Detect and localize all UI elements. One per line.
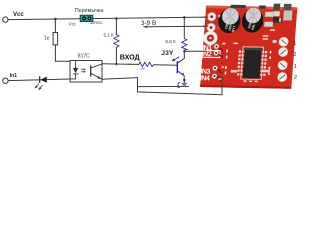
svg-text:In1: In1 xyxy=(10,73,17,79)
svg-text:+: + xyxy=(217,14,221,20)
svg-text:1к: 1к xyxy=(44,35,50,41)
svg-text:1: 1 xyxy=(294,64,297,70)
svg-text:J3Y: J3Y xyxy=(161,50,174,57)
svg-text:3-9 В: 3-9 В xyxy=(141,20,156,27)
svg-text:Vcc: Vcc xyxy=(69,22,76,27)
svg-text:5,1 К: 5,1 К xyxy=(104,32,115,37)
svg-text:10к: 10к xyxy=(140,66,145,70)
svg-text:Vcc: Vcc xyxy=(13,12,24,18)
svg-text:2: 2 xyxy=(294,75,297,81)
svg-text:1: 1 xyxy=(293,41,296,47)
svg-text:817С: 817С xyxy=(78,54,90,60)
svg-text:IN4: IN4 xyxy=(199,74,210,82)
svg-text:Перемычка: Перемычка xyxy=(75,8,104,14)
svg-text:6,8 К: 6,8 К xyxy=(166,39,177,44)
svg-text:JDVcc: JDVcc xyxy=(90,20,102,25)
svg-text:2: 2 xyxy=(293,52,296,58)
svg-text:ВХОД: ВХОД xyxy=(120,53,140,62)
